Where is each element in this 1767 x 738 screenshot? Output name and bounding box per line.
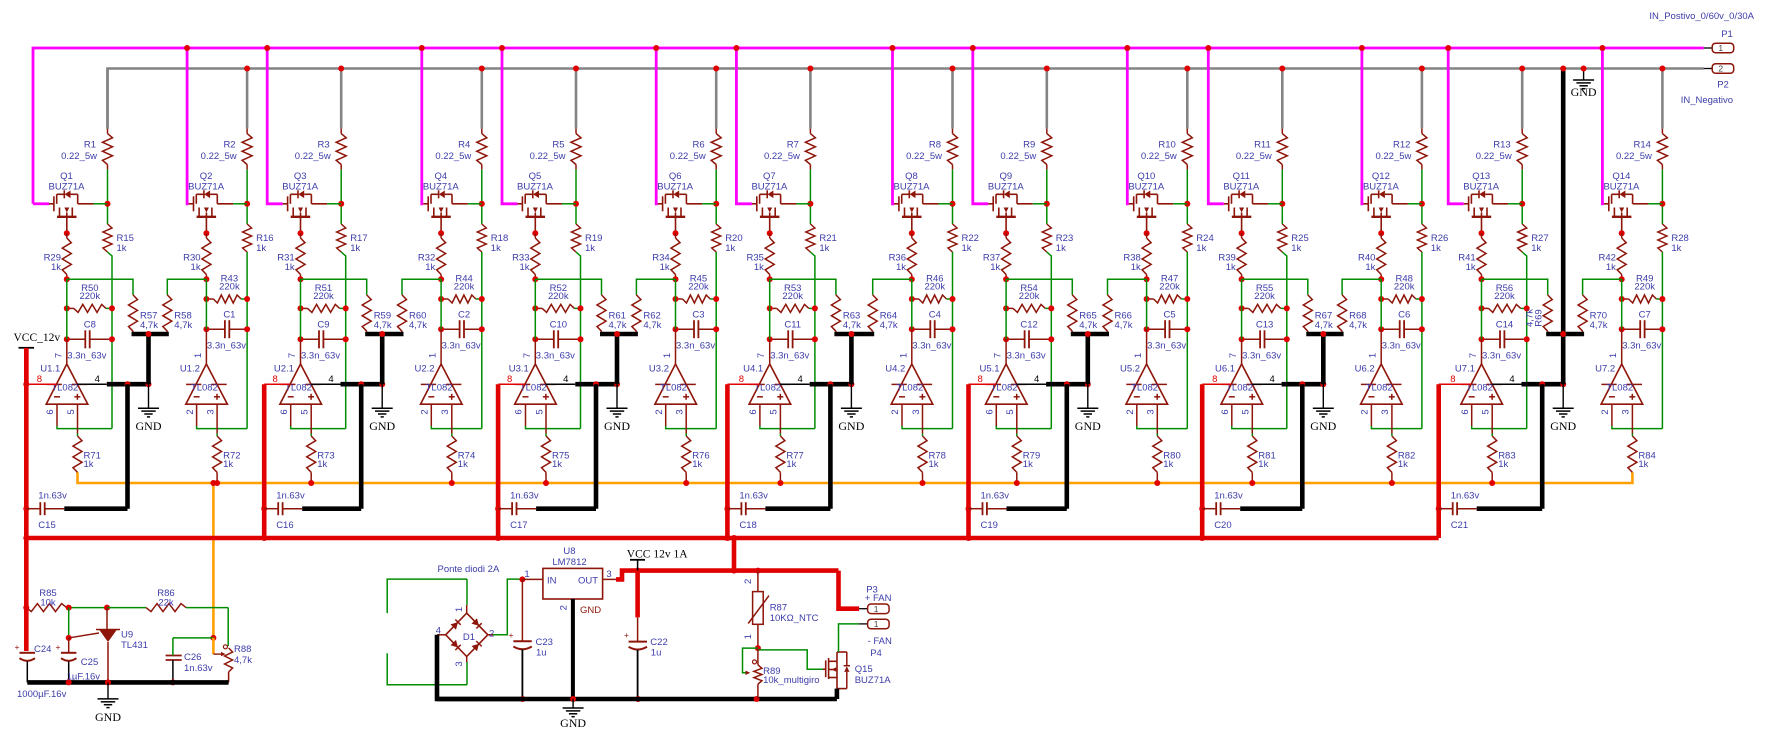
wire NTC node to R89 wiper [743,648,758,675]
svg-text:TL082: TL082 [1606,383,1633,394]
svg-text:GND: GND [560,716,586,730]
resistor R6 0.22_5w [670,129,721,170]
svg-text:4,7k: 4,7k [234,655,252,666]
wire source node ch10 to 4k7 divider [1108,279,1147,295]
svg-text:Q4: Q4 [434,171,447,182]
svg-text:3: 3 [1380,409,1391,414]
wire op-amp output column ch8 [911,279,913,364]
resistor R9 0.22_5w [1000,129,1051,170]
wire source node ch12 to 4k7 divider [1342,279,1381,295]
svg-text:C5: C5 [1164,309,1176,320]
capacitor C14 3.3n_63v [1479,320,1530,362]
svg-text:1k: 1k [1023,459,1033,470]
wire R74 to orange bus [449,472,455,486]
wire source node ch2 to 4k7 divider [167,279,206,295]
svg-text:4,7k: 4,7k [140,320,158,331]
svg-text:1k: 1k [1531,243,1541,254]
capacitor C9 3.3n_63v [298,320,349,362]
svg-text:1k: 1k [458,459,468,470]
resistor R23 1k [1042,224,1073,254]
wire inverting input U7.2 [1612,404,1663,428]
junction source node ch13 [1479,276,1485,282]
junction source Q3 [298,230,304,236]
svg-text:U6.2: U6.2 [1355,364,1375,375]
resistor R60 4,7k [398,295,428,334]
svg-text:R14: R14 [1633,140,1650,151]
resistor R41 1k [1458,233,1486,279]
resistor R88 4,7k trimmer [213,608,252,683]
svg-text:P2: P2 [1717,80,1729,91]
wire gate of Q13 to positive rail [1445,45,1464,204]
wire non-inverting input U2.1 [310,404,312,436]
svg-text:GND: GND [95,710,121,724]
junction source Q5 [532,230,538,236]
resistor R73 1k [307,436,335,472]
junction drain Q1 [105,201,111,207]
svg-text:C3: C3 [692,309,704,320]
resistor R42 1k [1598,233,1626,279]
svg-text:Q9: Q9 [999,171,1012,182]
svg-text:C24: C24 [34,644,51,655]
svg-text:GND: GND [838,419,864,433]
junction source node ch10 [1144,276,1150,282]
svg-text:1k: 1k [585,243,595,254]
resistor R8 0.22_5w [906,129,957,170]
wire feedback column ch5 [576,252,581,429]
wire R73 to orange bus [308,472,314,486]
transistor Q3 BUZ71A [282,171,341,233]
resistor R62 4,7k [632,295,662,334]
wire gate of Q7 to positive rail [733,45,752,204]
svg-text:4,7k: 4,7k [1115,320,1133,331]
svg-text:8: 8 [739,374,744,385]
svg-text:4,7k: 4,7k [643,320,661,331]
svg-text:3: 3 [606,569,611,580]
svg-text:1k: 1k [929,459,939,470]
svg-text:0.22_5w: 0.22_5w [1141,151,1177,162]
resistor R75 1k [542,436,570,472]
resistor R76 1k [682,436,710,472]
svg-text:0.22_5w: 0.22_5w [201,151,237,162]
wire feedback column ch12 [1421,252,1423,429]
svg-text:GND: GND [1075,419,1101,433]
wire negative rail drop ch8 [950,66,956,129]
resistor R48 220k [1378,274,1425,304]
capacitor C20 1n.63v [1202,384,1302,531]
svg-text:1k: 1k [425,262,435,273]
svg-text:C9: C9 [317,320,329,331]
wire negative rail drop ch11 [1279,66,1285,129]
capacitor C21 1n.63v [1439,384,1543,531]
wire pin8 VCC of U2.1 [264,374,290,385]
svg-text:BUZ71A: BUZ71A [1363,182,1400,193]
wire op-amp output column ch11 [1241,279,1243,364]
svg-text:0.22_5w: 0.22_5w [1476,151,1512,162]
capacitor C4 3.3n_63v [909,309,956,351]
op-amp U2.2 TL082 [415,353,463,415]
wire op-amp output column ch10 [1146,279,1148,364]
wire pin8 VCC of U5.1 [969,374,996,385]
resistor R57 4,7k [129,295,159,334]
resistor R2 0.22_5w [201,129,252,170]
svg-text:BUZ71A: BUZ71A [517,182,554,193]
svg-text:4: 4 [563,374,568,385]
svg-text:C20: C20 [1214,520,1231,531]
wire R79 to orange bus [1014,472,1020,486]
wire drain node ch13 [1521,169,1523,224]
svg-text:4: 4 [1034,374,1039,385]
resistor R12 0.22_5w [1375,129,1426,170]
svg-text:Q11: Q11 [1233,171,1250,182]
svg-text:1k: 1k [1365,262,1375,273]
resistor R21 1k [806,224,837,254]
resistor R64 4,7k [868,295,898,334]
svg-text:6: 6 [514,409,525,414]
svg-text:BUZ71A: BUZ71A [1128,182,1165,193]
wire source node ch9 to 4k7 divider [1006,279,1072,295]
wire negative rail drop ch3 [338,66,344,129]
connector P3 +FAN [839,571,892,614]
svg-text:Q8: Q8 [905,171,918,182]
capacitor C8 3.3n_63v [64,320,115,362]
wire pin8 VCC of U6.1 [1202,374,1231,385]
junction source node ch3 [298,276,304,282]
wire R76 to orange bus [683,472,689,486]
resistor R24 1k [1183,224,1214,254]
svg-text:2: 2 [890,409,901,414]
wire drain node ch9 [1046,169,1048,224]
svg-text:1k: 1k [1671,243,1681,254]
svg-text:3.3n_63v: 3.3n_63v [301,351,340,362]
wire orange setpoint bus [78,472,1633,483]
svg-text:C17: C17 [510,520,527,531]
svg-text:4,7k: 4,7k [843,320,861,331]
wire inverting input U3.1 [526,404,581,428]
junction source Q1 [64,230,70,236]
capacitor C6 3.3n_63v [1378,309,1425,351]
label Ponte diodi 2A [438,564,500,575]
wire drain node ch5 [575,169,577,224]
svg-text:Q6: Q6 [669,171,682,182]
svg-text:Q12: Q12 [1372,171,1390,182]
svg-text:220k: 220k [782,291,803,302]
op-amp U1.1 TL082 [40,353,88,415]
ground pair7 GND symbol [1550,384,1576,433]
wire R72 to orange bus [214,472,220,486]
svg-text:1k: 1k [519,262,529,273]
svg-text:2: 2 [489,629,494,640]
wire VCC vertical pair2 [261,384,267,541]
svg-text:C7: C7 [1639,309,1651,320]
wire 4k7 ground join pair1 [132,331,169,384]
svg-text:0.22_5w: 0.22_5w [295,151,331,162]
junction source node ch6 [673,276,679,282]
svg-text:BUZ71A: BUZ71A [49,182,86,193]
svg-text:1k: 1k [51,262,61,273]
svg-text:1: 1 [428,353,439,358]
svg-text:3: 3 [675,409,686,414]
transistor Q12 BUZ71A [1363,171,1422,233]
svg-text:BUZ71A: BUZ71A [988,182,1025,193]
svg-text:Q15: Q15 [855,664,873,675]
svg-text:220k: 220k [548,291,569,302]
svg-text:3.3n_63v: 3.3n_63v [770,351,809,362]
capacitor C16 1n.63v [264,384,361,531]
wire gate of Q5 to positive rail [499,45,518,204]
junction bridge output to C23 and IN [519,576,525,582]
op-amp U7.1 TL082 [1455,353,1503,415]
junction source Q11 [1239,230,1245,236]
svg-text:1k: 1k [256,243,266,254]
capacitor C2 3.3n_63v [438,309,485,351]
resistor R47 220k [1144,274,1191,304]
capacitor C18 1n.63v [727,384,830,531]
op-amp U4.1 TL082 [743,353,791,415]
svg-text:220k: 220k [454,282,475,293]
svg-text:C18: C18 [739,520,756,531]
svg-text:7: 7 [287,353,298,358]
svg-text:220k: 220k [1634,282,1655,293]
resistor R50 220k [64,283,115,313]
wire pin4 GND of U3.1 [546,374,620,387]
svg-text:R11: R11 [1254,140,1271,151]
svg-text:6: 6 [45,409,56,414]
resistor R43 220k [203,274,250,304]
resistor R14 0.22_5w [1616,129,1667,170]
svg-text:2: 2 [1125,409,1136,414]
svg-text:220k: 220k [1159,282,1180,293]
junction drain Q9 [1044,201,1050,207]
svg-text:2: 2 [654,409,665,414]
resistor R78 1k [918,436,946,472]
svg-text:C13: C13 [1256,320,1273,331]
transistor Q14 BUZ71A [1603,171,1662,233]
wire inverting input U1.1 [57,404,112,428]
resistor R16 1k [243,224,274,254]
wire drain node ch6 [715,169,717,224]
svg-text:Q3: Q3 [294,171,307,182]
capacitor C12 3.3n_63v [1003,320,1054,362]
wire NTC node to Q15 gate [758,650,823,669]
wire negative rail drop ch7 [807,66,813,129]
svg-text:1n.63v: 1n.63v [184,663,213,674]
wire non-inverting input U2.2 [451,404,453,436]
svg-text:4: 4 [95,374,100,385]
svg-text:3.3n_63v: 3.3n_63v [1242,351,1281,362]
wire pin8 VCC of U7.1 [1439,374,1472,385]
svg-text:C16: C16 [276,520,293,531]
svg-text:10KΩ_NTC: 10KΩ_NTC [770,613,819,624]
wire feedback column ch6 [715,252,717,429]
svg-text:U5.1: U5.1 [980,364,1000,375]
wire drain node ch4 [481,169,483,224]
wire gate of Q2 to positive rail [184,45,190,204]
resistor R69 4,7k [1525,295,1553,334]
wire source node ch7 to 4k7 divider [770,279,836,295]
wire op-amp output column ch3 [300,279,302,364]
wire gate of Q1 to positive rail [33,202,49,205]
wire VCC vertical pair7 [1436,384,1442,538]
op-amp U9 TL431 shunt reference [96,608,148,683]
svg-text:1k: 1k [819,243,829,254]
svg-text:5: 5 [769,409,780,414]
wire negative rail drop ch14 [1659,66,1665,129]
ground middle GND symbol [560,699,586,730]
svg-text:1k: 1k [1291,243,1301,254]
svg-text:U3.1: U3.1 [509,364,529,375]
svg-text:C19: C19 [981,520,998,531]
svg-text:C23: C23 [536,637,553,648]
capacitor C15 1n.63v [26,384,127,531]
wire drain node ch2 [246,169,248,224]
wire op-amp output column ch1 [66,279,68,364]
junction source Q8 [909,230,915,236]
wire gate of Q9 to positive rail [970,45,989,204]
svg-text:1k: 1k [350,243,360,254]
resistor R36 1k [889,233,917,279]
ground pair5 GND symbol [1075,384,1101,433]
junction drain Q14 [1659,201,1665,207]
regulator U8 LM7812 [522,546,616,699]
wire R78 to orange bus [920,472,926,486]
svg-text:1: 1 [1608,353,1619,358]
svg-text:U2.1: U2.1 [274,364,294,375]
junction source node ch8 [909,276,915,282]
svg-text:6: 6 [1220,409,1231,414]
svg-text:0.22_5w: 0.22_5w [1236,151,1272,162]
op-amp U2.1 TL082 [274,353,322,415]
svg-text:7: 7 [522,353,533,358]
resistor R46 220k [909,274,956,304]
capacitor C17 1n.63v [498,384,596,531]
svg-text:1k: 1k [1398,459,1408,470]
transistor Q6 BUZ71A [657,171,716,233]
wire drain node ch12 [1421,169,1423,224]
wire Q15 source to ground bus [835,689,840,699]
svg-text:5: 5 [300,409,311,414]
wire source node ch4 to 4k7 divider [402,279,441,295]
wire source node ch8 to 4k7 divider [873,279,912,295]
label IN_Postivo net name [1649,11,1754,22]
svg-text:1k: 1k [491,243,501,254]
svg-text:Q2: Q2 [200,171,213,182]
svg-text:Ponte diodi 2A: Ponte diodi 2A [438,564,500,575]
wire VCC feed to regulator output net [731,535,737,571]
capacitor C7 3.3n_63v [1619,309,1666,351]
svg-text:R1: R1 [84,140,96,151]
connector P1 pin 1 [1704,29,1734,53]
svg-text:R2: R2 [223,140,235,151]
wire R81 to orange bus [1249,472,1255,486]
junction drain Q3 [338,201,344,207]
svg-text:5: 5 [1241,409,1252,414]
svg-text:U7.2: U7.2 [1595,364,1615,375]
svg-text:1: 1 [1718,43,1723,53]
wire op-amp output column ch7 [769,279,771,364]
resistor R35 1k [746,233,774,279]
svg-text:Q13: Q13 [1472,171,1490,182]
resistor R82 1k [1387,436,1415,472]
svg-text:3: 3 [454,661,465,666]
svg-text:R10: R10 [1158,140,1175,151]
svg-text:R13: R13 [1493,140,1510,151]
wire inverting input U6.1 [1232,404,1287,428]
svg-text:GND: GND [136,419,162,433]
svg-text:220k: 220k [924,282,945,293]
wire negative rail drop ch1 [106,69,109,129]
svg-text:1k: 1k [1258,459,1268,470]
svg-text:C25: C25 [81,657,98,668]
wire inverting input U2.1 [291,404,346,428]
svg-text:4: 4 [328,374,333,385]
svg-text:1k: 1k [1638,459,1648,470]
svg-text:7: 7 [993,353,1004,358]
svg-text:BUZ71A: BUZ71A [894,182,931,193]
svg-text:3: 3 [440,409,451,414]
wire bottom-left ground bus [27,679,228,685]
svg-text:1k: 1k [1226,262,1236,273]
wire VCC 12v output net [616,568,839,580]
svg-text:7: 7 [756,353,767,358]
resistor R49 220k [1619,274,1666,304]
wire negative rail drop ch10 [1184,66,1190,129]
transistor Q8 BUZ71A [894,171,953,233]
transistor Q2 BUZ71A [188,171,247,233]
resistor R38 1k [1123,233,1151,279]
svg-text:+ FAN: + FAN [865,593,892,604]
capacitor C25 1uF.16v [56,638,101,683]
wire feedback column ch14 [1661,252,1663,429]
op-amp U3.2 TL082 [649,353,697,415]
svg-text:2: 2 [1600,409,1611,414]
svg-text:TL082: TL082 [1366,383,1393,394]
wire drain node ch14 [1661,169,1663,224]
wire 4k7 ground join pair6 [1306,331,1343,384]
svg-text:1k: 1k [962,243,972,254]
junction drain Q4 [479,201,485,207]
resistor R45 220k [673,274,720,304]
junction source node ch12 [1378,276,1384,282]
wire gate of Q12 to positive rail [1359,45,1365,204]
svg-text:1: 1 [662,353,673,358]
resistor R25 1k [1278,224,1309,254]
svg-text:8: 8 [977,374,982,385]
svg-text:4,7k: 4,7k [1315,320,1333,331]
wire IN_Positivo magenta top rail [33,48,1704,204]
svg-text:BUZ71A: BUZ71A [657,182,694,193]
resistor R63 4,7k [831,295,861,334]
resistor R71 1k [73,436,101,472]
svg-text:U1.2: U1.2 [180,364,200,375]
svg-text:3.3n_63v: 3.3n_63v [676,341,715,352]
svg-text:5: 5 [534,409,545,414]
wire IN_Negativo gray top rail [108,69,1704,129]
svg-text:1k: 1k [660,262,670,273]
svg-text:BUZ71A: BUZ71A [1463,182,1500,193]
wire op-amp output column ch5 [534,279,536,364]
op-amp U5.1 TL082 [980,353,1028,415]
svg-text:Q7: Q7 [763,171,776,182]
capacitor C5 3.3n_63v [1144,309,1191,351]
wire VCC vertical pair1 [23,348,29,541]
wire feedback column ch1 [108,252,113,429]
svg-text:BUZ71A: BUZ71A [1603,182,1640,193]
svg-text:1n.63v: 1n.63v [1451,491,1480,502]
svg-text:LM7812: LM7812 [552,557,586,568]
svg-text:7: 7 [1468,353,1479,358]
svg-text:1k: 1k [1498,459,1508,470]
svg-text:3.3n_63v: 3.3n_63v [912,341,951,352]
